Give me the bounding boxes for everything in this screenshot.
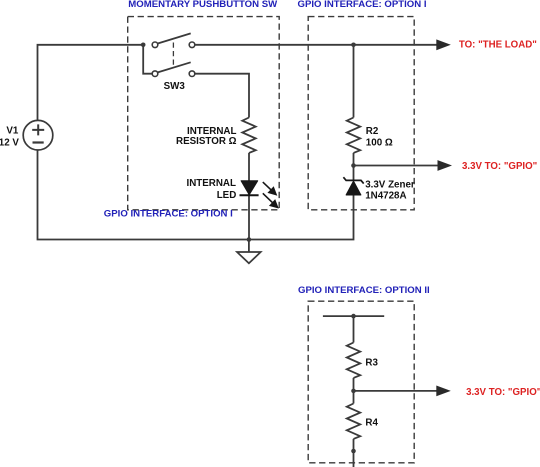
- svg-text:TO: "THE LOAD": TO: "THE LOAD": [459, 39, 537, 50]
- svg-text:GPIO INTERFACE: OPTION I: GPIO INTERFACE: OPTION I: [104, 208, 233, 219]
- svg-text:3.3V TO: "GPIO": 3.3V TO: "GPIO": [462, 161, 537, 172]
- svg-text:R2: R2: [366, 126, 379, 137]
- svg-text:GPIO INTERFACE: OPTION II: GPIO INTERFACE: OPTION II: [298, 285, 430, 296]
- svg-text:LED: LED: [217, 190, 237, 201]
- svg-text:RESISTOR Ω: RESISTOR Ω: [176, 136, 237, 147]
- svg-text:100 Ω: 100 Ω: [366, 137, 393, 148]
- svg-text:1N4728A: 1N4728A: [365, 191, 406, 202]
- svg-text:3.3V Zener: 3.3V Zener: [365, 179, 415, 190]
- svg-text:R3: R3: [365, 358, 378, 369]
- svg-text:MOMENTARY PUSHBUTTON SW: MOMENTARY PUSHBUTTON SW: [128, 0, 278, 10]
- svg-text:GPIO INTERFACE: OPTION I: GPIO INTERFACE: OPTION I: [298, 0, 427, 10]
- svg-text:V1: V1: [6, 126, 19, 137]
- svg-text:3.3V TO: "GPIO": 3.3V TO: "GPIO": [466, 387, 540, 398]
- svg-text:INTERNAL: INTERNAL: [186, 178, 236, 189]
- svg-text:12 V: 12 V: [0, 138, 19, 149]
- svg-text:R4: R4: [365, 418, 378, 429]
- svg-text:SW3: SW3: [164, 81, 186, 92]
